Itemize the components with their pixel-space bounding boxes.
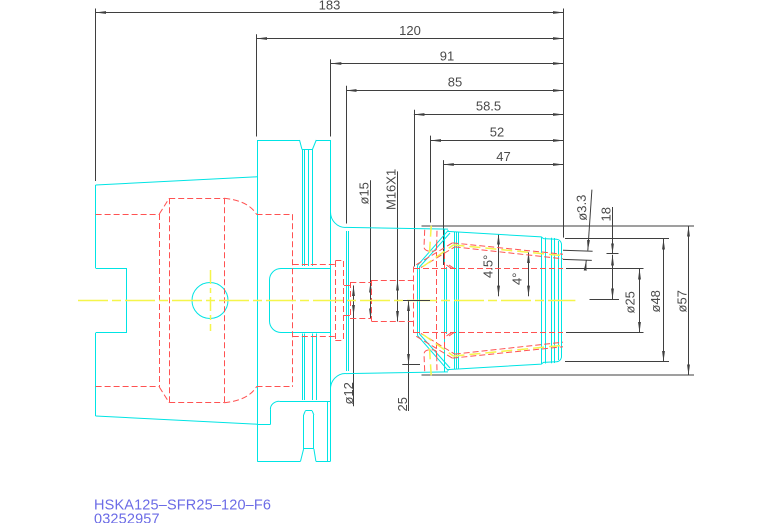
pocket face line 1: [436, 243, 438, 358]
collet front face line 2: [446, 267, 448, 334]
dia25 bottom extension: [566, 332, 644, 334]
cavity inner vertical right: [224, 198, 226, 402]
gripper column top: [305, 410, 312, 412]
dia48 top extension: [565, 238, 669, 240]
dimension 91 line: [331, 63, 564, 65]
svg-text:ø15: ø15: [356, 182, 371, 204]
nut groove 1: [541, 237, 543, 364]
cavity rear arc top: [224, 198, 257, 214]
gripper flare right: [314, 449, 316, 461]
nut ring line 3: [458, 232, 460, 369]
dim 18 leader line upper: [612, 207, 614, 254]
collar sleeve right: [343, 261, 345, 340]
dia15 arrow down: [370, 309, 372, 319]
cavity rear arc bottom: [224, 387, 257, 403]
dim 25 center tick: [403, 300, 430, 302]
flange bottom edge right: [316, 461, 331, 463]
dia15 leader line: [370, 180, 372, 319]
nut ring line 1: [454, 232, 456, 369]
fillet collar to body bottom: [330, 374, 345, 390]
shank notch top: [96, 268, 127, 270]
dia12 bore bottom: [344, 315, 350, 317]
collet seat line lower: [414, 332, 563, 334]
nut cone top outer: [418, 230, 449, 265]
drive slot D-shape right edge: [330, 212, 332, 390]
dia57 dimension line: [688, 226, 690, 375]
svg-text:85: 85: [448, 75, 462, 90]
extension line at shank end x=95.6: [95, 9, 97, 182]
coolant hole axis upper steep: [423, 245, 454, 267]
dia15 bore left: [350, 282, 352, 319]
claw notch top edge: [279, 401, 330, 403]
angle 4 dimension line: [528, 252, 530, 296]
svg-text:03252957: 03252957: [94, 512, 160, 523]
extension line at groove x=430.5: [430, 136, 432, 223]
shank left face lower: [95, 333, 97, 416]
dia3.3 lower arrow: [585, 260, 588, 266]
svg-text:ø12: ø12: [341, 382, 356, 404]
nut right face: [561, 244, 563, 358]
svg-text:ø57: ø57: [675, 290, 690, 312]
v-groove vertical 4 upper: [312, 150, 314, 267]
pocket face line 2 lower: [444, 333, 446, 348]
svg-text:ø48: ø48: [648, 290, 663, 312]
extension line at nut face x=413.9: [414, 110, 416, 267]
drive slot D-shape top edge: [281, 268, 331, 270]
collet chamfer diag upper 1: [447, 265, 452, 269]
collar right face lower: [330, 390, 332, 462]
coolant hole wall upper 2 shallow: [455, 247, 563, 259]
svg-text:183: 183: [319, 0, 341, 13]
cavity inner vertical left: [169, 198, 171, 402]
dia3.3 extension lower: [563, 259, 592, 260]
collar sleeve top: [335, 260, 344, 262]
cavity back face: [292, 214, 294, 387]
nut ring line 2: [456, 232, 458, 369]
pocket face line 2 upper: [444, 253, 446, 268]
fillet collar to body top: [331, 212, 346, 228]
flange top corner chamfer: [300, 140, 303, 150]
svg-text:91: 91: [440, 48, 454, 63]
nut right face inner: [558, 241, 560, 360]
dia15 bore top: [350, 282, 372, 284]
nut left face outer: [417, 266, 419, 336]
M16X1 arrow up: [397, 280, 399, 290]
M16 thread right face: [413, 267, 415, 334]
cavity top edge: [169, 198, 224, 200]
v-groove right chamfer: [312, 140, 316, 150]
drive slot D-shape left edge: [269, 280, 271, 321]
bore under flange bottom: [257, 386, 293, 388]
cavity chamfer top: [159, 198, 169, 214]
collar right face upper: [330, 140, 332, 212]
shank taper top edge: [96, 177, 258, 185]
dimension 85 line: [346, 90, 563, 92]
cavity bottom edge: [169, 402, 224, 404]
svg-text:M16X1: M16X1: [384, 169, 399, 210]
dia3.3 extension upper: [563, 250, 593, 251]
shank left face upper: [95, 185, 97, 268]
body bottom edge: [346, 372, 449, 374]
dia3.3 dimension stem: [588, 190, 592, 251]
M16X1 arrow down: [397, 312, 399, 322]
extraction groove upper: [424, 230, 437, 252]
extension line at collar face x=330.8: [330, 59, 332, 136]
flange bottom edge left: [257, 461, 300, 463]
cavity chamfer bottom: [159, 387, 169, 403]
M16 thread bottom: [372, 321, 415, 323]
coolant hole axis lower shallow: [454, 345, 566, 356]
dia12 arrow down: [353, 306, 355, 316]
M16 thread left: [371, 280, 373, 322]
v-groove vertical 3 lower: [312, 334, 314, 401]
drive slot D-shape top-left arc: [270, 269, 282, 281]
dimension 120 line: [257, 38, 564, 40]
M16X1 leader line: [397, 171, 399, 321]
body top edge: [346, 227, 449, 229]
coolant hole wall lower 2 steep: [421, 333, 455, 354]
dia48 bottom extension: [565, 361, 669, 363]
drive hole circle: [192, 283, 228, 319]
dia57 bottom extension: [422, 374, 695, 376]
bore under flange top: [257, 214, 293, 216]
shank bore bottom line: [96, 386, 160, 388]
dim 18 centerline tick: [590, 299, 620, 301]
gripper column bottom: [304, 448, 314, 450]
M16 thread top: [372, 280, 415, 282]
dim 18 top tick: [607, 253, 619, 255]
svg-text:ø25: ø25: [623, 291, 638, 313]
claw notch bottom ledge: [257, 424, 270, 426]
nut left face inner: [419, 267, 421, 335]
extraction groove lower: [424, 350, 437, 372]
dim 25 leader line: [408, 301, 410, 412]
dia12 leader line: [353, 286, 355, 407]
nut top edge: [447, 231, 561, 243]
collar top edge: [316, 140, 331, 142]
v-groove vertical 4 lower: [316, 334, 318, 401]
coolant hole wall lower 1 shallow: [452, 347, 563, 358]
extension line at flange face x=256.7: [256, 34, 258, 136]
gripper column left chamfer: [304, 411, 306, 415]
drive slot D-shape bottom-left arc: [270, 321, 282, 333]
flange left face: [257, 140, 259, 461]
coolant hole wall upper 2 steep: [421, 247, 455, 268]
v-groove vertical 2 lower: [304, 334, 306, 401]
v-groove vertical 1 upper: [302, 150, 304, 267]
flange bore bottom line: [293, 336, 336, 338]
dim 25 arrow down: [408, 354, 410, 364]
drive slot D-shape bottom edge: [281, 332, 331, 334]
coolant hole axis lower steep: [423, 334, 454, 356]
dia48 dimension line: [663, 239, 665, 362]
svg-text:47: 47: [496, 149, 510, 164]
flange bore top line: [293, 264, 336, 266]
angle 4.5 dimension line: [498, 234, 500, 296]
claw notch corner arc: [270, 401, 279, 409]
dim 25 bottom tick: [402, 364, 420, 366]
flange top edge: [257, 140, 299, 142]
cavity left face: [159, 214, 161, 387]
drive hole vertical centerline: [210, 270, 212, 331]
shank notch bottom: [96, 332, 127, 334]
coolant hole axis lower vertical: [430, 348, 432, 376]
shank notch right: [126, 268, 128, 333]
svg-text:4.5°: 4.5°: [481, 255, 496, 278]
dimension 183 line: [96, 12, 564, 14]
svg-text:4°: 4°: [510, 273, 525, 285]
collet seat line upper: [414, 268, 563, 270]
gripper flare left: [301, 449, 304, 461]
svg-text:25: 25: [395, 397, 410, 411]
dim 25 arrow up: [408, 301, 410, 311]
dimension 52 line: [431, 140, 564, 142]
svg-text:52: 52: [490, 125, 504, 140]
main centerline: [78, 300, 575, 302]
body left face line 2: [348, 231, 350, 371]
extension line at body face x=346.1: [346, 86, 348, 224]
collet chamfer diag lower 2: [449, 333, 454, 337]
nut bottom edge: [447, 358, 561, 370]
gripper column right edge: [313, 415, 315, 449]
gripper column right chamfer: [312, 411, 314, 415]
nut cone top inner: [420, 233, 451, 267]
collar sleeve left: [335, 261, 337, 340]
extension line at pocket x=443.3: [443, 160, 445, 265]
dim 18 line lower: [612, 255, 614, 299]
collar sleeve bottom: [335, 340, 344, 342]
svg-text:58.5: 58.5: [476, 99, 501, 114]
coolant hole wall lower 2 shallow: [455, 342, 563, 354]
v-groove vertical 1 lower: [302, 334, 304, 401]
svg-text:18: 18: [599, 207, 614, 221]
dia12 arrow up: [353, 286, 355, 296]
dia25 top extension: [566, 268, 644, 270]
nut cone bottom outer: [418, 336, 449, 371]
collet chamfer diag lower 1: [447, 333, 452, 337]
nut groove 4: [554, 238, 556, 363]
svg-text:120: 120: [399, 23, 421, 38]
extension line right reference x=563.5: [563, 9, 565, 238]
coolant hole axis upper vertical: [430, 226, 432, 254]
shank bore top line: [96, 214, 160, 216]
body left face line 1: [346, 231, 348, 371]
claw inner vertical: [327, 401, 329, 461]
nut cone bottom inner: [420, 334, 451, 368]
coolant hole wall lower 1 steep: [416, 336, 452, 358]
collet front face line 1: [444, 230, 446, 372]
collet chamfer diag upper 2: [449, 265, 454, 269]
dia57 top extension: [422, 225, 695, 227]
dia25 dimension line: [639, 269, 641, 333]
coolant hole wall upper 1 shallow: [452, 243, 563, 254]
svg-text:ø3.3: ø3.3: [573, 194, 589, 221]
claw notch left edge: [270, 409, 272, 424]
gripper column left edge: [303, 415, 305, 449]
shank taper bottom edge: [96, 416, 258, 424]
coolant hole wall upper 1 steep: [416, 243, 452, 265]
dia12 bore top: [344, 285, 350, 287]
dia15 bore bottom: [350, 318, 372, 320]
v-groove vertical 2 upper: [304, 150, 306, 267]
nut groove 2: [545, 238, 547, 364]
dia15 arrow up: [370, 282, 372, 292]
nut groove 3: [551, 238, 553, 363]
v-groove vertical 3 upper: [308, 150, 310, 267]
dim 18 arrow up under tick: [612, 255, 614, 261]
dimension 47 line: [443, 164, 563, 166]
v-groove bottom edge: [302, 149, 312, 151]
dimension 58.5 line: [414, 114, 564, 116]
coolant hole axis upper shallow: [454, 245, 566, 256]
